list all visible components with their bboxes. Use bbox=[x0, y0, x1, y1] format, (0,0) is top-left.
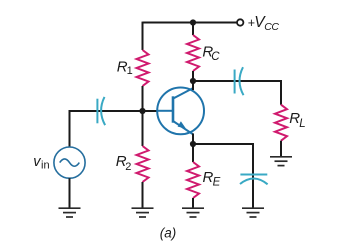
wire: RC to collector node bbox=[192, 71, 194, 81]
label R2 bbox=[116, 153, 132, 173]
junction: VCC rail / RC branch bbox=[190, 19, 196, 25]
wire: input to base (through C1) bbox=[70, 110, 158, 112]
wire: rail down to RC bbox=[192, 23, 194, 36]
ground (RL) bbox=[270, 157, 292, 166]
label vin bbox=[33, 154, 49, 171]
wire: collector node to output cap to RL bbox=[193, 81, 281, 105]
label R1 bbox=[117, 58, 133, 76]
transistor Q1 (NPN BJT) bbox=[157, 88, 204, 135]
junction: emitter node bbox=[190, 141, 196, 147]
svg-text:CC: CC bbox=[264, 21, 279, 33]
label RE bbox=[203, 169, 221, 189]
terminal +VCC (open circle) bbox=[237, 19, 243, 25]
ground (R2) bbox=[132, 208, 154, 217]
svg-text:C: C bbox=[211, 51, 220, 63]
wire: collector to collector node bbox=[192, 81, 194, 90]
resistor R2 bbox=[137, 146, 149, 182]
wire: emitter to emitter node bbox=[192, 134, 194, 145]
wire: rail down to R1 bbox=[142, 22, 144, 50]
ground (RE) bbox=[182, 208, 204, 217]
resistor RE bbox=[187, 162, 199, 198]
wire: RL to ground bbox=[280, 141, 282, 157]
svg-text:E: E bbox=[213, 177, 221, 189]
wire: vin to input corner bbox=[69, 110, 71, 147]
ground (vin) bbox=[59, 208, 81, 217]
junction: base node bbox=[139, 108, 145, 114]
label RC bbox=[202, 43, 220, 63]
label RL bbox=[289, 110, 305, 130]
source vin (AC source) bbox=[54, 147, 85, 178]
svg-text:1: 1 bbox=[127, 65, 133, 77]
resistor R1 bbox=[137, 50, 149, 86]
svg-text:(a): (a) bbox=[160, 225, 177, 240]
wire: RE to ground bbox=[192, 198, 194, 208]
capacitor C3 (emitter bypass) bbox=[240, 175, 268, 185]
svg-text:L: L bbox=[299, 118, 305, 130]
resistor RC bbox=[187, 35, 199, 71]
wire: R1 to base node bbox=[142, 86, 144, 111]
capacitor C1 (input coupling) bbox=[97, 97, 105, 125]
resistor RL bbox=[275, 105, 287, 141]
wire: emitter node to bypass cap to ground bbox=[193, 144, 253, 208]
label +VCC bbox=[248, 14, 280, 33]
wire: base node to R2 bbox=[142, 111, 144, 146]
wire: emitter node to RE bbox=[192, 144, 194, 162]
capacitor C2 (output coupling) bbox=[235, 67, 244, 95]
wire: +VCC top rail bbox=[143, 22, 238, 24]
wire: R2 to ground bbox=[142, 182, 144, 208]
svg-text:2: 2 bbox=[125, 161, 131, 173]
svg-text:in: in bbox=[41, 159, 50, 171]
wire: vin to ground bbox=[69, 178, 71, 208]
ground (bypass cap) bbox=[242, 208, 264, 217]
junction: collector node bbox=[190, 78, 196, 84]
